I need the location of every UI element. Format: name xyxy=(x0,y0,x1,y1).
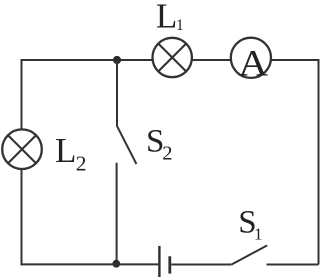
wire top-left segment xyxy=(22,59,153,61)
lamp L1 xyxy=(153,38,192,77)
svg-text:L: L xyxy=(55,131,76,170)
wire left rail lower xyxy=(21,169,23,266)
svg-text:2: 2 xyxy=(162,143,172,165)
label S1 xyxy=(238,205,262,244)
wire battery to switch S1 xyxy=(171,264,231,266)
switch S2 xyxy=(117,126,136,164)
wire bottom-left segment xyxy=(22,263,159,265)
node top junction xyxy=(113,56,121,64)
wire right rail xyxy=(318,59,320,265)
battery cell xyxy=(159,246,169,277)
wire middle branch lower xyxy=(116,163,118,264)
svg-text:1: 1 xyxy=(176,17,184,34)
wire between lamp L1 and ammeter xyxy=(192,59,231,61)
lamp L2 xyxy=(2,129,42,169)
ammeter A xyxy=(231,38,271,84)
wire middle branch upper xyxy=(116,60,118,126)
wire left rail upper xyxy=(21,59,23,130)
switch S1 xyxy=(231,245,267,264)
label L2 xyxy=(55,131,87,175)
svg-text:2: 2 xyxy=(76,151,87,175)
label L1 xyxy=(156,0,184,36)
svg-text:L: L xyxy=(156,0,177,36)
svg-text:1: 1 xyxy=(254,224,263,243)
svg-text:A: A xyxy=(238,43,268,83)
wire switch S1 to bottom-right corner xyxy=(267,264,319,266)
node bottom junction xyxy=(112,260,120,268)
wire ammeter to top-right corner xyxy=(271,59,319,61)
label S2 xyxy=(146,124,172,165)
